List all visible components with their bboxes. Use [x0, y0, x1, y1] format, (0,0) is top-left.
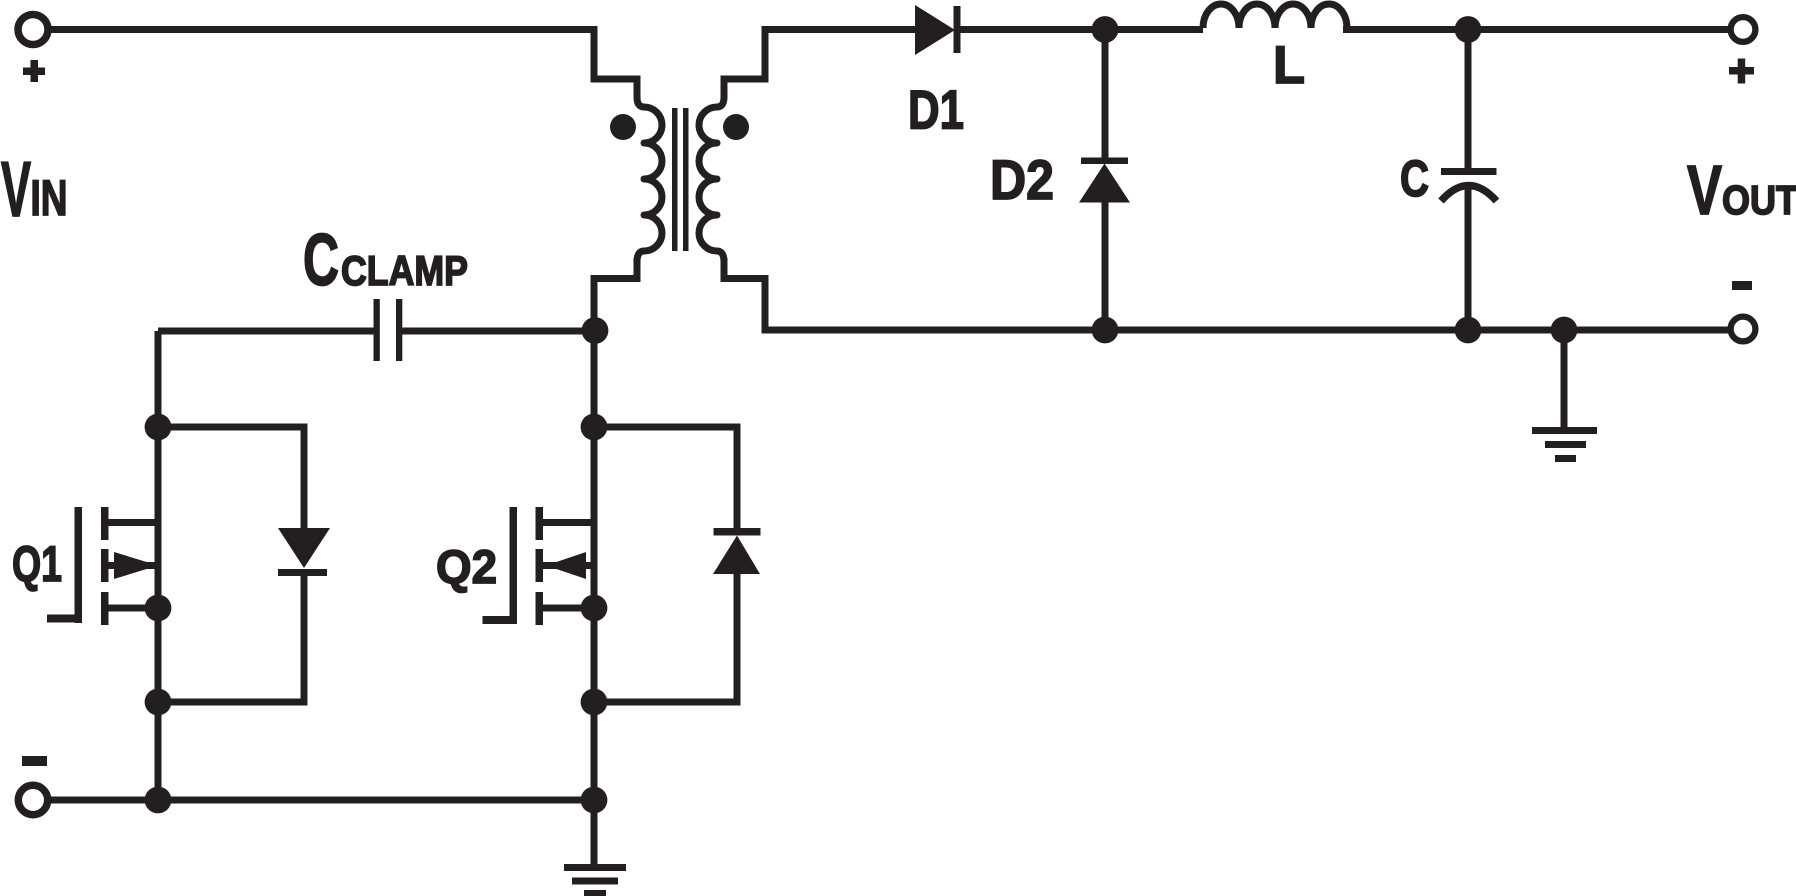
- svg-text:CLAMP: CLAMP: [341, 247, 468, 294]
- svg-text:D2: D2: [990, 148, 1054, 211]
- svg-text:C: C: [1400, 150, 1429, 207]
- svg-text:IN: IN: [31, 170, 68, 226]
- svg-text:OUT: OUT: [1722, 177, 1796, 223]
- svg-text:C: C: [303, 220, 339, 301]
- svg-text:V: V: [1, 145, 31, 233]
- svg-text:V: V: [1687, 151, 1722, 229]
- svg-text:D1: D1: [908, 79, 964, 141]
- svg-text:L: L: [1273, 36, 1305, 95]
- svg-text:Q1: Q1: [12, 536, 62, 592]
- svg-text:Q2: Q2: [436, 540, 497, 593]
